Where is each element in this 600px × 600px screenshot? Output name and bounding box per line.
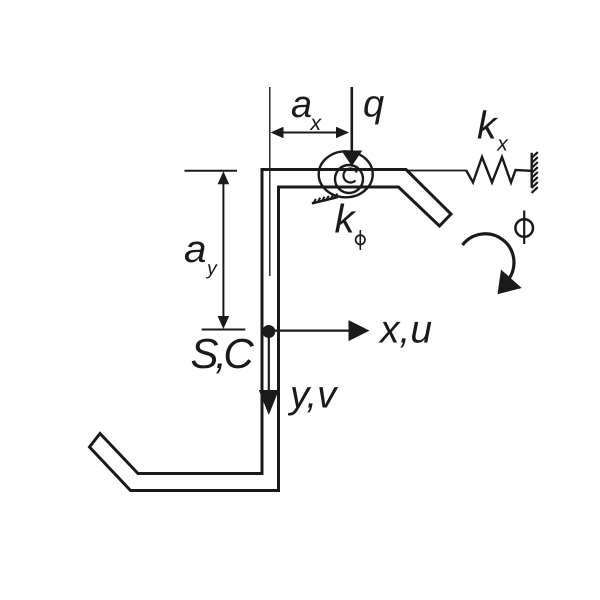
load q arrow	[350, 87, 353, 152]
svg-text:k: k	[335, 198, 357, 242]
svg-text:S,C: S,C	[191, 330, 255, 377]
svg-text:y,v: y,v	[287, 374, 339, 417]
svg-text:x: x	[496, 133, 509, 156]
svg-text:x,u: x,u	[378, 308, 432, 351]
svg-text:a: a	[291, 84, 312, 126]
rotational spring k_phi : outer ring	[319, 151, 373, 197]
spring zigzag	[466, 157, 531, 183]
wall hatch	[532, 152, 538, 193]
dimension a_x	[271, 127, 350, 139]
phi rotation arrow	[463, 234, 514, 280]
rotational spring inner curl	[344, 169, 357, 183]
x,u axis	[269, 330, 351, 332]
spiral ground hatch baseline	[312, 197, 338, 203]
wall	[531, 153, 533, 188]
extension line	[269, 87, 271, 276]
svg-text:a: a	[184, 229, 207, 271]
centroid dot	[262, 325, 275, 338]
svg-text:x: x	[309, 111, 322, 135]
spiral ground hatch teeth	[314, 194, 337, 203]
Z-section thin-walled profile	[90, 170, 452, 491]
svg-text:q: q	[363, 84, 384, 126]
dimension a_y	[185, 171, 246, 330]
spring k_x lead line	[406, 170, 466, 172]
svg-text:k: k	[477, 105, 499, 148]
rotational spring middle ring	[335, 165, 363, 193]
y,v axis	[268, 332, 270, 392]
subscript phi glyph	[356, 230, 365, 250]
svg-text:y: y	[205, 258, 218, 280]
label phi glyph	[515, 211, 533, 245]
